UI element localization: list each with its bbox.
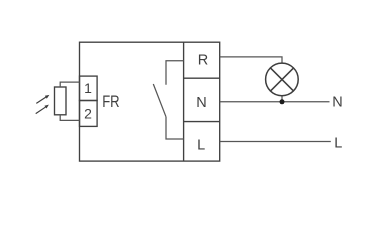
switch S1 blade (153, 84, 166, 117)
wire N (220, 101, 330, 103)
terminal divider R/N (184, 77, 220, 79)
lamp E1 cross stroke 2 (271, 68, 294, 91)
svg-text:N: N (196, 95, 206, 111)
lamp E1 circle (266, 63, 299, 96)
terminal block left edge (183, 42, 185, 161)
svg-text:L: L (334, 136, 342, 152)
wire lamp bottom to junction (281, 96, 283, 102)
wire L (220, 141, 331, 143)
wire R terminal to lamp (220, 57, 282, 64)
svg-text:2: 2 (84, 106, 92, 122)
switch S1 lower wire to L (166, 117, 184, 139)
light arrow upper (36, 95, 50, 114)
FR terminal box 1 (80, 76, 98, 100)
FR terminal box 2 (80, 101, 98, 127)
junction dot on N wire (280, 99, 285, 104)
svg-text:R: R (198, 52, 208, 68)
main box (twilight switch outline) (80, 42, 220, 161)
svg-text:N: N (332, 94, 342, 110)
lamp E1 cross stroke 1 (271, 68, 294, 91)
svg-text:L: L (197, 138, 205, 154)
photoresistor FR body (55, 87, 67, 115)
wire LDR top to terminal 1 (60, 82, 79, 87)
light arrow lower (36, 107, 46, 114)
svg-text:1: 1 (84, 80, 92, 96)
terminal divider N/L (184, 121, 220, 123)
svg-text:FR: FR (102, 92, 119, 111)
switch S1 fixed contact wire (166, 61, 184, 85)
wire LDR bottom to terminal 2 (60, 115, 79, 121)
